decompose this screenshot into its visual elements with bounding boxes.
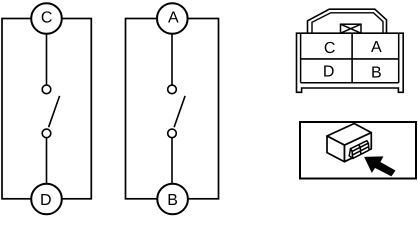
svg-text:C: C (41, 9, 53, 26)
switch S2 outline box (126, 19, 219, 199)
terminal D (31, 184, 62, 215)
switch S2 blade (174, 96, 185, 127)
block front face (352, 143, 369, 158)
relay body front face (327, 136, 345, 162)
svg-text:A: A (168, 9, 179, 26)
svg-text:C: C (324, 40, 336, 57)
switch S2 top contact (168, 85, 177, 94)
block front grid col divider (359, 147, 362, 154)
relay body end face (345, 133, 372, 162)
connector cell divider vertical (351, 33, 353, 83)
block top face (351, 141, 369, 152)
switch S1 blade (49, 96, 60, 127)
wire from switch S2 to terminal B (171, 138, 173, 184)
relay location box (300, 122, 416, 179)
wire from switch S1 to terminal D (46, 138, 48, 184)
svg-text:D: D (40, 192, 52, 209)
svg-text:B: B (371, 65, 382, 82)
svg-text:D: D (323, 64, 335, 81)
wire from terminal A to switch S2 (171, 34, 173, 85)
connector keyway crossed box (341, 24, 362, 33)
terminal B (157, 184, 188, 215)
relay connector block (349, 141, 369, 159)
wire from terminal C to switch S1 (46, 34, 48, 85)
switch S1 top contact (42, 85, 51, 94)
connector body inner wall left (300, 33, 302, 83)
terminal C (31, 3, 62, 34)
relay body top face (327, 124, 371, 146)
svg-text:A: A (371, 39, 382, 56)
connector body inner wall right (398, 33, 400, 83)
connector hood inner outline (312, 13, 383, 33)
connector cell divider horizontal (301, 58, 399, 60)
switch S2 bottom contact (168, 129, 177, 138)
svg-text:B: B (167, 192, 178, 209)
block left end face (349, 149, 353, 159)
terminal A (157, 3, 188, 34)
switch S1 bottom contact (42, 129, 51, 138)
block front grid row line (352, 147, 368, 155)
connector body outer shell with feet (297, 33, 404, 92)
block top strip divider (359, 145, 361, 148)
connector hood outer outline (308, 9, 387, 33)
connector cavity bottom line (301, 82, 399, 84)
location arrow (364, 156, 395, 176)
switch S1 outline box (2, 19, 91, 199)
